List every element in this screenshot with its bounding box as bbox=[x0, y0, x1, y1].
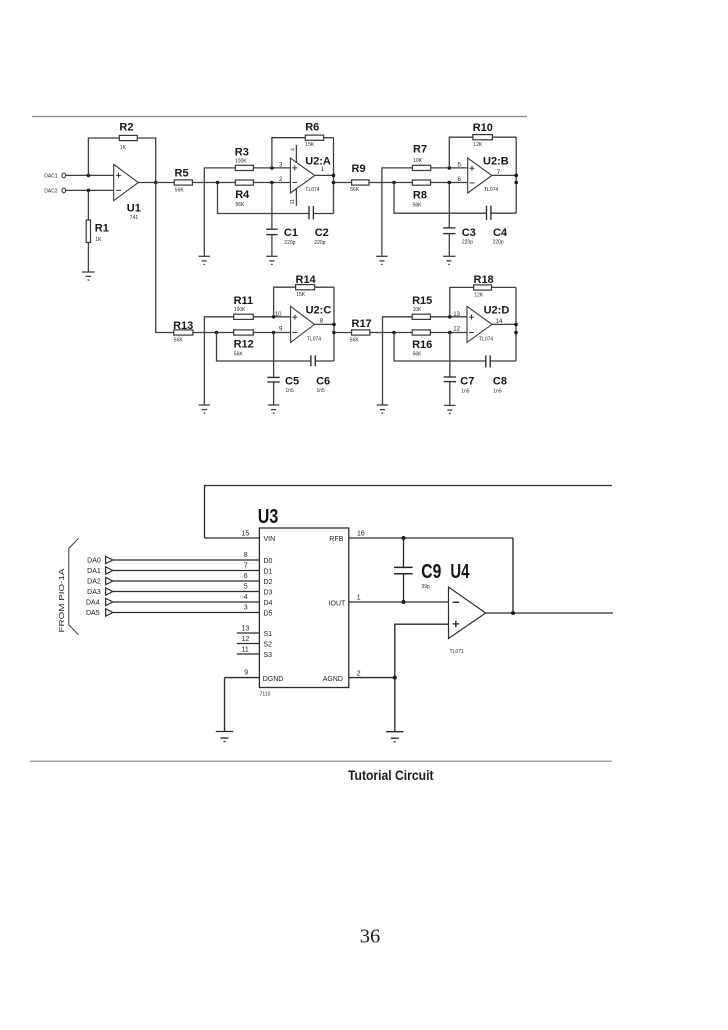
capacitor C6 bbox=[311, 355, 330, 394]
wire row1 main line stage2 bbox=[334, 182, 468, 184]
node R15 right bbox=[448, 315, 452, 319]
svg-text:R5: R5 bbox=[175, 168, 189, 180]
op-amp U4 bbox=[449, 561, 486, 655]
resistor R5 bbox=[174, 168, 192, 194]
svg-text:D4: D4 bbox=[264, 600, 273, 607]
wire C5 branch bbox=[273, 333, 275, 405]
svg-text:FROM PIO-1A: FROM PIO-1A bbox=[59, 568, 66, 632]
pin AGND (2) bbox=[323, 671, 395, 683]
svg-text:D5: D5 bbox=[264, 611, 273, 618]
wire R14 feedback run bbox=[274, 287, 334, 317]
wire C3 branch bbox=[448, 183, 450, 256]
svg-text:39p: 39p bbox=[422, 584, 431, 590]
wire U4 +in to AGND to ground bbox=[395, 624, 449, 731]
op-amp U2:C bbox=[275, 305, 332, 343]
svg-text:220p: 220p bbox=[493, 240, 504, 246]
svg-text:D2: D2 bbox=[264, 579, 273, 586]
node R8 right bbox=[448, 181, 452, 185]
svg-text:R2: R2 bbox=[119, 121, 133, 133]
svg-text:Tutorial Circuit: Tutorial Circuit bbox=[348, 767, 434, 783]
svg-text:R10: R10 bbox=[473, 122, 493, 134]
resistor R15 bbox=[412, 295, 432, 319]
svg-text:1n5: 1n5 bbox=[493, 388, 502, 394]
resistor R3 bbox=[235, 147, 254, 171]
wire U2:A output bbox=[315, 174, 334, 176]
node rail2 main bbox=[514, 181, 518, 185]
node R3 right bbox=[270, 166, 274, 170]
ground below R1 bbox=[82, 272, 95, 280]
svg-text:R8: R8 bbox=[413, 190, 427, 202]
wire R7 branch riser to ground bbox=[382, 168, 468, 256]
svg-text:S2: S2 bbox=[264, 642, 273, 649]
svg-text:AGND: AGND bbox=[323, 676, 343, 683]
svg-text:100K: 100K bbox=[235, 159, 247, 165]
svg-text:R6: R6 bbox=[305, 122, 319, 134]
svg-text:12K: 12K bbox=[473, 142, 483, 148]
svg-text:U1: U1 bbox=[127, 203, 141, 215]
node on DAC1 line bbox=[87, 174, 91, 178]
svg-text:RFB: RFB bbox=[329, 536, 343, 543]
svg-text:56K: 56K bbox=[234, 352, 244, 358]
svg-text:220p: 220p bbox=[314, 240, 325, 246]
IC U3 body bbox=[258, 506, 349, 698]
data input DA4 bbox=[86, 594, 273, 607]
wire R6 feedback run bbox=[272, 138, 334, 168]
svg-text:R11: R11 bbox=[234, 295, 254, 307]
capacitor C2 bbox=[309, 206, 329, 246]
wire C7 branch bbox=[449, 333, 451, 405]
resistor R2 bbox=[119, 121, 137, 151]
top horizontal rule bbox=[32, 116, 527, 118]
svg-text:1n5: 1n5 bbox=[461, 388, 470, 394]
svg-text:C2: C2 bbox=[315, 227, 329, 239]
svg-text:1: 1 bbox=[321, 167, 325, 173]
svg-text:10: 10 bbox=[275, 312, 282, 318]
svg-text:C6: C6 bbox=[316, 376, 330, 388]
node U2:D out bbox=[514, 323, 518, 327]
svg-text:220p: 220p bbox=[462, 240, 473, 246]
node R11 right bbox=[272, 315, 276, 319]
node before R16 bbox=[392, 331, 396, 335]
wire DAC1 to U1 +in bbox=[66, 174, 114, 176]
capacitor C7 bbox=[444, 375, 475, 394]
svg-text:10K: 10K bbox=[413, 158, 423, 164]
svg-text:U2:C: U2:C bbox=[306, 305, 332, 317]
capacitor C9 bbox=[394, 538, 441, 602]
node R16 right bbox=[448, 331, 452, 335]
wire DGND to ground bbox=[224, 678, 226, 731]
pin DGND (9) bbox=[225, 670, 284, 683]
wire R10 feedback run bbox=[449, 137, 516, 168]
input terminal DAC2 bbox=[44, 188, 65, 194]
svg-text:C9: C9 bbox=[421, 561, 441, 583]
svg-text:741: 741 bbox=[130, 215, 139, 221]
svg-text:56K: 56K bbox=[413, 352, 423, 358]
svg-text:12: 12 bbox=[453, 326, 460, 332]
svg-text:1: 1 bbox=[357, 595, 361, 602]
capacitor C4 bbox=[487, 206, 508, 246]
resistor R18 bbox=[474, 274, 494, 298]
ground below C3 bbox=[443, 256, 455, 264]
resistor R14 bbox=[296, 274, 317, 298]
svg-text:D3: D3 bbox=[264, 590, 273, 597]
data input DA5 bbox=[86, 605, 273, 618]
svg-text:U4: U4 bbox=[450, 561, 470, 583]
wire row2 main line stage4 bbox=[334, 332, 467, 334]
svg-text:56K: 56K bbox=[175, 188, 185, 194]
op-amp U1 bbox=[114, 164, 141, 221]
wire R11 branch riser to ground bbox=[204, 317, 290, 405]
svg-text:15K: 15K bbox=[305, 142, 315, 148]
svg-text:TL074: TL074 bbox=[484, 187, 498, 193]
svg-text:4: 4 bbox=[291, 148, 297, 151]
node U2:C out bbox=[332, 323, 336, 327]
wire U1 output / row1 main line bbox=[138, 182, 290, 184]
node before R4 bbox=[216, 181, 220, 185]
node rail3 main bbox=[332, 331, 336, 335]
resistor R13 bbox=[173, 320, 193, 344]
node RFB-C9 bbox=[402, 536, 406, 540]
node rail main bbox=[332, 181, 336, 185]
svg-text:DGND: DGND bbox=[263, 676, 284, 683]
svg-text:11: 11 bbox=[290, 199, 296, 204]
svg-text:8: 8 bbox=[244, 552, 248, 559]
pin VIN (15) bbox=[205, 530, 276, 543]
brace FROM PIO-1A bbox=[69, 538, 79, 635]
ground AGND bbox=[386, 732, 403, 742]
svg-text:DA5: DA5 bbox=[86, 610, 100, 617]
wire DAC2 to U1 -in bbox=[66, 189, 114, 191]
wire C1 branch bbox=[271, 183, 273, 256]
wire U2:B output bbox=[492, 174, 516, 176]
svg-text:IOUT: IOUT bbox=[329, 600, 346, 607]
op-amp U2:D bbox=[453, 305, 509, 343]
svg-text:R9: R9 bbox=[352, 163, 366, 175]
svg-text:1n5: 1n5 bbox=[285, 388, 294, 394]
svg-text:R12: R12 bbox=[234, 339, 254, 351]
svg-text:DA1: DA1 bbox=[87, 568, 101, 575]
svg-text:D0: D0 bbox=[264, 558, 273, 565]
svg-text:3: 3 bbox=[244, 605, 248, 612]
svg-text:D1: D1 bbox=[264, 569, 273, 576]
capacitor C8 bbox=[486, 355, 507, 394]
svg-text:16: 16 bbox=[357, 530, 365, 537]
ground below R9 branch bbox=[376, 256, 387, 264]
svg-text:5: 5 bbox=[244, 584, 248, 591]
ground below R13 branch bbox=[199, 405, 210, 413]
node U2:B out bbox=[514, 174, 518, 178]
svg-text:36: 36 bbox=[360, 926, 381, 948]
resistor R9 bbox=[350, 163, 369, 193]
svg-text:12: 12 bbox=[242, 636, 250, 643]
node U2:A out bbox=[332, 174, 336, 178]
data input DA1 bbox=[87, 563, 272, 576]
node on DAC2 line bbox=[87, 189, 91, 193]
ground below C5 bbox=[268, 405, 279, 413]
svg-text:220p: 220p bbox=[284, 240, 295, 246]
svg-text:56K: 56K bbox=[350, 338, 360, 344]
svg-text:C7: C7 bbox=[460, 375, 474, 387]
svg-text:1K: 1K bbox=[95, 237, 102, 243]
svg-text:11: 11 bbox=[242, 646, 249, 653]
svg-text:100K: 100K bbox=[234, 307, 246, 313]
wire U2:C output bbox=[315, 323, 335, 325]
svg-text:7110: 7110 bbox=[260, 692, 271, 698]
svg-text:56K: 56K bbox=[350, 187, 360, 193]
svg-text:13: 13 bbox=[242, 625, 250, 632]
svg-text:U2:B: U2:B bbox=[483, 156, 509, 168]
svg-text:2: 2 bbox=[357, 671, 361, 678]
wire R15 branch riser to ground bbox=[383, 317, 468, 405]
data input DA3 bbox=[87, 584, 272, 597]
svg-text:DAC2: DAC2 bbox=[44, 188, 58, 194]
wire U4 output bbox=[486, 612, 613, 614]
node R7 right bbox=[448, 166, 452, 170]
svg-text:VIN: VIN bbox=[264, 536, 276, 543]
ground below R17 branch bbox=[377, 405, 388, 413]
wire stage1 output rail bbox=[333, 138, 335, 214]
svg-text:C1: C1 bbox=[284, 227, 298, 239]
resistor R16 bbox=[412, 330, 432, 358]
wire R3 branch riser to ground bbox=[204, 168, 290, 256]
svg-text:DA2: DA2 bbox=[87, 579, 101, 586]
svg-text:R15: R15 bbox=[412, 295, 432, 307]
resistor R6 bbox=[305, 122, 323, 149]
resistor R10 bbox=[473, 122, 493, 148]
data input DA0 bbox=[87, 552, 272, 565]
svg-text:1n5: 1n5 bbox=[317, 388, 326, 394]
svg-text:DA0: DA0 bbox=[87, 558, 101, 565]
svg-text:TL074: TL074 bbox=[307, 336, 321, 342]
svg-text:R17: R17 bbox=[352, 318, 372, 330]
svg-text:R13: R13 bbox=[173, 320, 193, 332]
node before R12 bbox=[215, 331, 219, 335]
svg-text:R1: R1 bbox=[95, 223, 109, 235]
svg-text:R7: R7 bbox=[413, 144, 427, 156]
svg-text:56K: 56K bbox=[413, 202, 423, 208]
svg-text:15K: 15K bbox=[296, 292, 306, 298]
svg-text:R16: R16 bbox=[412, 339, 432, 351]
svg-text:6: 6 bbox=[244, 573, 248, 580]
node AGND junction bbox=[393, 676, 397, 680]
wire feedback RFB to output bbox=[512, 538, 514, 613]
svg-text:9: 9 bbox=[244, 670, 248, 677]
node R4 right bbox=[270, 181, 274, 185]
svg-text:13: 13 bbox=[453, 312, 460, 318]
svg-text:56K: 56K bbox=[236, 202, 246, 208]
svg-text:C5: C5 bbox=[285, 376, 299, 388]
wire stage3 output rail bbox=[333, 287, 335, 361]
svg-text:R3: R3 bbox=[235, 147, 249, 159]
svg-text:TL074: TL074 bbox=[305, 187, 319, 193]
svg-text:C8: C8 bbox=[493, 375, 507, 387]
node R12 right bbox=[272, 331, 276, 335]
wire lower feedback loop stage4 bbox=[394, 333, 516, 362]
svg-text:R14: R14 bbox=[296, 274, 317, 286]
svg-text:S3: S3 bbox=[264, 652, 273, 659]
wire row1 to row2 connector bbox=[156, 183, 291, 333]
input terminal DAC1 bbox=[44, 173, 65, 179]
pin S1 (13) bbox=[237, 625, 272, 638]
node before R8 bbox=[392, 181, 396, 185]
wire top rail of DAC section bbox=[205, 486, 613, 539]
resistor R17 bbox=[350, 318, 372, 344]
wire stage4 output rail bbox=[515, 287, 517, 361]
svg-text:56K: 56K bbox=[174, 338, 184, 344]
bottom horizontal rule bbox=[30, 760, 612, 762]
node U4 output feedback bbox=[511, 611, 515, 615]
capacitor C1 bbox=[266, 227, 298, 246]
svg-text:TL071: TL071 bbox=[450, 649, 464, 655]
svg-text:R4: R4 bbox=[235, 189, 250, 201]
resistor R8 bbox=[412, 180, 430, 208]
ground below R5 branch bbox=[199, 256, 210, 264]
wire U2:D output bbox=[492, 323, 516, 325]
op-amp U2:B bbox=[458, 156, 509, 194]
resistor R4 bbox=[235, 180, 253, 208]
svg-text:DAC1: DAC1 bbox=[44, 173, 58, 179]
svg-text:TL074: TL074 bbox=[479, 336, 493, 342]
data input DA2 bbox=[87, 573, 272, 586]
svg-text:9: 9 bbox=[279, 326, 283, 332]
svg-text:DA4: DA4 bbox=[86, 600, 100, 607]
node C9-IOUT bbox=[402, 600, 406, 604]
resistor R7 bbox=[412, 144, 430, 171]
capacitor C3 bbox=[443, 227, 476, 246]
svg-text:10K: 10K bbox=[413, 307, 423, 313]
resistor R1 bbox=[86, 190, 109, 271]
ground DGND bbox=[216, 732, 233, 742]
svg-text:7: 7 bbox=[244, 563, 248, 570]
capacitor C5 bbox=[267, 376, 299, 395]
svg-text:12K: 12K bbox=[474, 293, 484, 299]
svg-text:U2:A: U2:A bbox=[305, 156, 331, 168]
svg-text:S1: S1 bbox=[264, 631, 273, 638]
wire lower feedback loop stage1 bbox=[218, 183, 334, 214]
wire R18 feedback run bbox=[450, 287, 516, 316]
resistor R11 bbox=[234, 295, 254, 319]
svg-text:C4: C4 bbox=[493, 227, 508, 239]
pin IOUT (1) bbox=[329, 595, 449, 608]
svg-text:15: 15 bbox=[242, 530, 250, 537]
op-amp U2:A bbox=[279, 145, 331, 206]
wire lower feedback loop stage2 bbox=[394, 183, 516, 214]
resistor R12 bbox=[234, 330, 254, 358]
svg-text:C3: C3 bbox=[462, 227, 476, 239]
pin S2 (12) bbox=[237, 636, 272, 649]
svg-text:U3: U3 bbox=[258, 506, 279, 528]
svg-text:DA3: DA3 bbox=[87, 589, 101, 596]
svg-text:U2:D: U2:D bbox=[484, 305, 510, 317]
wire lower feedback loop stage3 bbox=[217, 333, 335, 362]
wire stage2 output rail bbox=[515, 137, 517, 213]
ground below C1 bbox=[266, 256, 277, 264]
pin RFB (16) bbox=[329, 530, 513, 543]
svg-text:R18: R18 bbox=[474, 274, 494, 286]
ground below C7 bbox=[444, 405, 455, 413]
wire R2 feedback run bbox=[88, 138, 155, 183]
svg-text:4: 4 bbox=[244, 594, 248, 601]
node U1 output bbox=[154, 181, 158, 185]
svg-text:1K: 1K bbox=[120, 145, 127, 151]
node rail4 main bbox=[514, 331, 518, 335]
pin S3 (11) bbox=[237, 646, 272, 659]
